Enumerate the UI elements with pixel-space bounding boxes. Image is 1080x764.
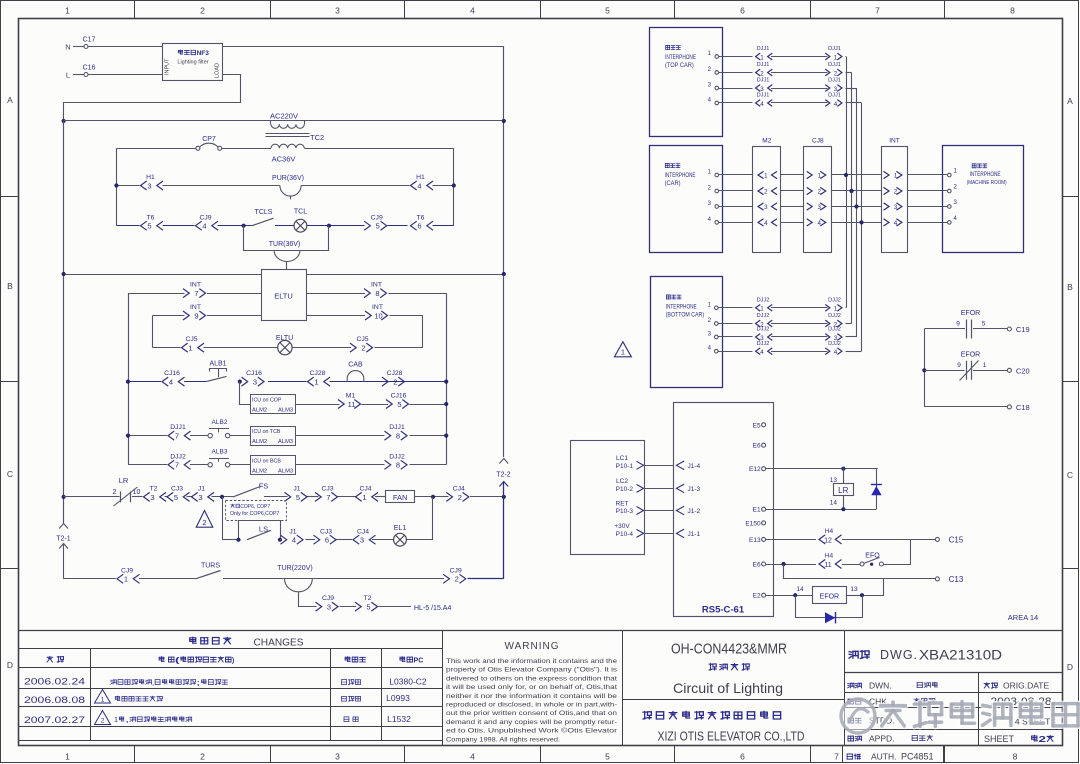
svg-text:2006.02.24: 2006.02.24 — [24, 677, 85, 687]
junction DJJ1 row right — [444, 434, 448, 438]
wire DJJ2-4 middle — [771, 351, 828, 353]
svg-text:APPD.: APPD. — [869, 734, 895, 744]
svg-text:LOAD: LOAD — [215, 63, 221, 78]
pin 2 top car — [708, 67, 719, 74]
pin 3 machine room — [948, 200, 958, 208]
svg-text:(CAR): (CAR) — [665, 181, 681, 187]
svg-text:J1: J1 — [293, 486, 300, 493]
svg-text:A: A — [1067, 96, 1073, 106]
svg-text:L1532: L1532 — [387, 714, 411, 724]
junction left bus top — [62, 119, 66, 123]
svg-text:2: 2 — [393, 378, 397, 387]
svg-text:DJJ1: DJJ1 — [170, 424, 186, 431]
connector M1-11 — [338, 393, 361, 409]
svg-text:6: 6 — [325, 536, 329, 545]
wire INT to machine room pin 4 — [907, 222, 947, 224]
contact H4-11 — [819, 553, 842, 569]
svg-text:4: 4 — [834, 349, 838, 356]
connector CJ9-2 — [443, 567, 466, 583]
svg-text:5: 5 — [605, 752, 610, 762]
junction TUR left — [242, 224, 246, 228]
svg-text:3: 3 — [150, 493, 154, 502]
wire ALB1 to ICU COP box — [240, 382, 251, 405]
unit ICU on TCB — [251, 427, 296, 446]
warning notice box — [446, 641, 618, 743]
svg-text:CJ9: CJ9 — [121, 567, 133, 574]
svg-text:1: 1 — [362, 493, 366, 502]
unit ELTU box — [262, 270, 307, 321]
svg-text:7: 7 — [175, 461, 179, 470]
svg-text:E12: E12 — [749, 466, 761, 473]
svg-text:CAB: CAB — [348, 361, 363, 368]
svg-text:4: 4 — [894, 220, 898, 227]
svg-text:2: 2 — [458, 493, 462, 502]
revision row 2007.02.27 — [24, 711, 411, 726]
diode D2 — [825, 612, 836, 623]
connector DJJ1-4 left — [756, 93, 773, 108]
svg-text:1: 1 — [834, 54, 838, 61]
svg-text:1: 1 — [894, 173, 898, 180]
wire DJJ1-4 middle — [771, 102, 828, 104]
svg-text:TUR(36V): TUR(36V) — [269, 241, 301, 248]
svg-text:C20: C20 — [1016, 366, 1030, 375]
svg-text:1: 1 — [764, 173, 768, 180]
svg-text:out the prior written consent: out the prior written consent of Otis,an… — [446, 710, 617, 717]
svg-text:DJJ1: DJJ1 — [828, 78, 841, 84]
pin 2 machine room — [948, 185, 958, 193]
wire TURS row — [64, 578, 504, 580]
junction CJ16 row left — [126, 380, 130, 384]
junction E12 LR branch — [841, 467, 845, 471]
svg-text:1: 1 — [314, 378, 318, 387]
relay EFOR coil — [813, 587, 847, 604]
svg-text:DJJ1: DJJ1 — [757, 62, 770, 68]
connector CJ5-2 — [350, 336, 373, 352]
net HL-5 /15.A4 — [414, 605, 451, 612]
junction LR row left — [62, 495, 66, 499]
svg-text:CJ9: CJ9 — [450, 567, 462, 574]
svg-text:4: 4 — [470, 6, 475, 16]
svg-text:3: 3 — [335, 6, 340, 16]
svg-text:CHANGES: CHANGES — [254, 637, 304, 649]
wire top car pin 1 — [719, 56, 753, 58]
svg-text:FAN: FAN — [393, 493, 408, 502]
svg-text:1: 1 — [124, 575, 128, 584]
svg-text:5: 5 — [376, 222, 380, 231]
pin E6 — [753, 443, 766, 450]
svg-text:ELTU: ELTU — [274, 291, 293, 300]
svg-text:2007.02.27: 2007.02.27 — [24, 715, 85, 725]
pin E2 — [753, 593, 766, 600]
svg-text:B: B — [1067, 282, 1073, 292]
pin E6 — [753, 562, 766, 569]
wire DJJ1 row — [128, 435, 446, 437]
svg-text:4: 4 — [760, 101, 764, 108]
drawing number DWG XBA21310D — [849, 648, 1002, 663]
connector CJ28-2 — [382, 370, 405, 386]
wire E1 row — [766, 509, 877, 511]
breaker CP7 — [196, 136, 222, 150]
titleblock row APPD — [848, 734, 933, 744]
svg-text:E6: E6 — [753, 562, 761, 569]
connector CJ9-1 — [117, 567, 140, 583]
wire DJJ2-3 to vertical — [846, 336, 857, 338]
revision triangle 2 — [196, 511, 213, 528]
connector DJJ2-8 — [385, 453, 408, 469]
connector DJJ1-4 right — [825, 93, 842, 108]
svg-text:DJJ2: DJJ2 — [757, 341, 770, 347]
wire car pin 3 to M2 — [719, 206, 753, 208]
terminal C19 — [1007, 325, 1029, 334]
svg-text:CJ3: CJ3 — [320, 528, 332, 535]
connector block M2 — [753, 137, 781, 252]
wire bottom car pin 3 — [718, 336, 752, 338]
svg-text:DWG.: DWG. — [880, 648, 918, 662]
svg-text:delivered to others on the exp: delivered to others on the express condi… — [446, 675, 617, 682]
svg-text:NF3: NF3 — [197, 50, 210, 57]
junction row 3 vertical — [854, 204, 858, 208]
connector DJJ2-1 left — [756, 297, 773, 312]
pin 3 bottom car — [708, 332, 718, 339]
connector DJJ1-2 right — [825, 62, 842, 77]
node L — [66, 71, 84, 80]
connector CJ9-4 — [196, 214, 219, 230]
svg-text:1: 1 — [760, 306, 764, 313]
wire P10-2 to J1-3 — [644, 488, 674, 490]
wire INT to machine room pin 1 — [907, 174, 947, 176]
wire filter LOAD return — [64, 75, 241, 121]
wire bottom car pin 1 — [718, 307, 752, 309]
svg-text:4: 4 — [764, 220, 768, 227]
svg-text:DJJ1: DJJ1 — [828, 62, 841, 68]
junction E2 13 — [850, 586, 864, 597]
pin 1 machine room — [948, 169, 958, 177]
connector block INT — [882, 137, 908, 252]
drawing number block — [844, 673, 1062, 746]
wire E12 row — [766, 468, 878, 470]
wire P10-1 to J1-4 — [644, 465, 674, 467]
pin E5 — [753, 422, 766, 429]
svg-text:This work and the information: This work and the information it contain… — [446, 658, 617, 665]
wire C15 to EFO — [910, 539, 912, 564]
wire CJ8 to INT row 2 — [832, 190, 882, 192]
connector DJJ2-4 right — [825, 341, 842, 356]
pin E150 — [745, 520, 765, 527]
wire DJJ2-2 to vertical — [846, 323, 852, 325]
wire top car pin 3 — [719, 88, 753, 90]
wire DJJ2-1 middle — [771, 307, 828, 309]
titleblock row CHK — [848, 697, 935, 707]
svg-text:9: 9 — [194, 311, 198, 320]
svg-text:ICU on TCB: ICU on TCB — [252, 429, 281, 435]
svg-text:9: 9 — [957, 362, 961, 369]
contact EFOR 9-5 — [956, 310, 1007, 339]
wire AC36V right to right sub bus — [304, 148, 454, 225]
switch TCLS — [252, 209, 274, 226]
svg-text:EL1: EL1 — [394, 525, 407, 532]
connector CJ16-3 — [242, 370, 265, 386]
svg-text:H4: H4 — [825, 553, 834, 560]
junction LS left — [236, 538, 240, 542]
svg-text:ed to Otis. Unpublished W: ed to Otis. Unpublished Work ©Otis Eleva… — [446, 727, 618, 735]
wire INT8 row — [306, 293, 447, 465]
connector T6-5 — [141, 214, 164, 230]
wire INT7 row — [128, 293, 262, 465]
svg-text:ALM3: ALM3 — [278, 407, 293, 413]
terminal C17 — [83, 37, 96, 49]
junction CJ16 row right — [444, 380, 448, 384]
svg-text:,: , — [152, 680, 154, 687]
connector T6-6 — [411, 214, 434, 230]
titleblock row STDD — [848, 716, 895, 726]
connector DJJ1-1 left — [756, 46, 773, 61]
svg-text:C16: C16 — [83, 65, 96, 72]
connector CJ16-4 — [162, 370, 185, 386]
svg-text:OH-CON4423&MMR: OH-CON4423&MMR — [671, 642, 787, 658]
svg-text:ALM2: ALM2 — [252, 439, 267, 445]
svg-text:3: 3 — [335, 752, 340, 762]
svg-text:;: ; — [196, 680, 200, 687]
left ruler strip — [1, 95, 18, 670]
connector DJJ1-7 — [168, 424, 191, 440]
svg-text:8: 8 — [1010, 6, 1015, 16]
svg-text:2: 2 — [760, 70, 764, 77]
pin 1 car — [708, 170, 719, 177]
junction AC220V bus right — [502, 119, 506, 123]
junction E6 — [782, 562, 786, 566]
svg-text:7: 7 — [875, 6, 880, 16]
unit RS5-C-61 — [674, 403, 774, 617]
svg-text:2: 2 — [113, 489, 117, 496]
revision triangle 1 — [614, 342, 631, 357]
svg-text:CJ16: CJ16 — [391, 393, 407, 400]
svg-text:AREA 14: AREA 14 — [1008, 613, 1038, 622]
svg-text:E150: E150 — [745, 520, 761, 527]
svg-text:2: 2 — [361, 344, 365, 353]
svg-text:CJ9: CJ9 — [322, 595, 334, 602]
svg-text:2: 2 — [101, 718, 105, 725]
svg-text:5: 5 — [982, 321, 986, 328]
junction H1 row right — [452, 183, 456, 187]
svg-text:2: 2 — [200, 752, 205, 762]
wire INT to machine room pin 3 — [907, 206, 947, 208]
connector J1-4 — [281, 528, 304, 544]
connector block CJ8 — [804, 137, 832, 252]
svg-text:Company 1998. All rights rese: Company 1998. All rights reserved. — [446, 736, 560, 743]
connector CJ4-2 — [446, 486, 469, 502]
wire diode loop — [796, 596, 863, 618]
svg-text:12: 12 — [824, 537, 832, 544]
svg-text:J1-2: J1-2 — [688, 508, 701, 515]
svg-text:AC36V: AC36V — [272, 155, 296, 164]
wire LR row — [64, 496, 504, 498]
svg-text:CJ3: CJ3 — [321, 486, 333, 493]
wire DJJ2-4 to vertical — [846, 351, 862, 353]
lamp TCL — [294, 209, 307, 233]
svg-text:J1: J1 — [289, 528, 296, 535]
svg-text:J1-3: J1-3 — [688, 486, 701, 493]
terminal C13 — [935, 575, 963, 584]
svg-text:EFOR: EFOR — [961, 310, 980, 317]
lamp EL1 — [394, 525, 407, 546]
changes table header — [47, 637, 424, 665]
svg-text:4: 4 — [292, 536, 296, 545]
svg-text:DJJ2: DJJ2 — [389, 453, 405, 460]
connector H1-4 — [411, 174, 434, 190]
diode D1 — [871, 469, 882, 510]
pin 3 top car — [708, 83, 719, 90]
svg-text:(MACHINE ROOM): (MACHINE ROOM) — [967, 180, 1007, 186]
wire DJJ1-1 to vertical — [846, 57, 847, 308]
svg-text:2: 2 — [200, 6, 205, 16]
wire DJJ1-3 to vertical — [846, 88, 857, 337]
svg-text:3: 3 — [327, 603, 331, 612]
pin 1 bottom car — [708, 302, 718, 309]
svg-text:TC2: TC2 — [310, 133, 324, 142]
connector INT-9 — [183, 304, 206, 320]
svg-text:D: D — [7, 660, 13, 670]
connector DJJ2-3 right — [825, 327, 842, 342]
svg-text:6: 6 — [417, 222, 421, 231]
svg-text:T2-2: T2-2 — [496, 472, 511, 479]
svg-text:6: 6 — [740, 6, 745, 16]
switch LS — [247, 525, 271, 540]
svg-text:P10-2: P10-2 — [616, 486, 634, 493]
svg-text:1: 1 — [983, 362, 987, 369]
pin 2 bottom car — [708, 318, 718, 325]
svg-text:4: 4 — [760, 349, 764, 356]
pin E12 — [749, 466, 766, 473]
svg-text:3: 3 — [360, 536, 364, 545]
svg-text:INT: INT — [889, 137, 900, 144]
connector CJ28-1 — [308, 370, 331, 386]
svg-text:ALM2: ALM2 — [252, 468, 267, 474]
svg-text:3: 3 — [894, 204, 898, 211]
wire EFOR common vertical — [924, 329, 965, 407]
svg-text:INTERPHONE: INTERPHONE — [665, 173, 696, 179]
junction EFOR common — [922, 368, 926, 372]
auth box AUTH PC4851 — [843, 746, 944, 764]
wire P10-4 to J1-1 — [644, 533, 674, 535]
pin J1-2 — [676, 506, 700, 515]
svg-text:CJ4: CJ4 — [453, 486, 465, 493]
switch EFO — [860, 553, 883, 567]
wire L to filter — [88, 74, 162, 76]
svg-text:DJJ1: DJJ1 — [757, 46, 770, 52]
svg-text:C18: C18 — [1016, 403, 1030, 412]
junction FAN row right — [502, 495, 506, 499]
wire filter N output to right bus — [223, 46, 504, 48]
svg-text:1: 1 — [65, 6, 70, 16]
svg-text:4: 4 — [417, 181, 421, 190]
svg-text:5: 5 — [174, 493, 178, 502]
svg-text:XBA21310D: XBA21310D — [919, 648, 1002, 663]
svg-text:ORIG.DATE: ORIG.DATE — [1003, 681, 1049, 691]
junction row 4 vertical — [859, 220, 863, 224]
wire M1 row — [296, 404, 447, 406]
svg-text:demand it and any copies will: demand it and any copies will be promptl… — [446, 719, 617, 726]
svg-text:LR: LR — [119, 476, 129, 485]
svg-text:AUTH.: AUTH. — [871, 752, 897, 762]
svg-text:+30V: +30V — [614, 523, 630, 530]
pin 4 car — [708, 217, 719, 224]
svg-text:L0993: L0993 — [386, 693, 410, 703]
wire M2 to CJ8 row 3 — [781, 206, 804, 208]
wire AC220V bus — [64, 120, 504, 122]
svg-text:PC4851: PC4851 — [901, 752, 934, 762]
wire DJJ2-1 to vertical — [845, 307, 848, 309]
svg-text:2006.08.08: 2006.08.08 — [24, 695, 85, 705]
junction FAN right — [431, 495, 435, 499]
svg-text:TCLS: TCLS — [255, 209, 273, 216]
svg-text:DJJ1: DJJ1 — [828, 46, 841, 52]
off-page arrow T2-1 — [56, 524, 71, 579]
svg-text:CJ9: CJ9 — [199, 214, 211, 221]
svg-text:it will be used only for, or o: it will be used only for, or on behalf o… — [446, 684, 617, 691]
title XIZI OTIS ELEVATOR CO LTD — [658, 730, 805, 744]
junction row 2 vertical — [849, 189, 853, 193]
transformer TUR(36V) — [244, 226, 329, 270]
svg-text:TUR(220V): TUR(220V) — [277, 565, 312, 572]
svg-text:ALB1: ALB1 — [209, 361, 226, 368]
top ruler strip — [65, 1, 1015, 18]
pin P10-2 LC2 — [616, 478, 644, 493]
connector DJJ1-1 right — [825, 46, 842, 61]
svg-text:CJ4: CJ4 — [359, 486, 371, 493]
svg-text:2: 2 — [894, 189, 898, 196]
svg-text:2: 2 — [202, 518, 206, 527]
titleblock row DWN — [848, 681, 938, 691]
wire bottom car pin 2 — [718, 323, 752, 325]
svg-text:PUR(36V): PUR(36V) — [272, 175, 304, 182]
svg-text:H4: H4 — [825, 528, 834, 535]
connector CJ3-5 — [167, 486, 190, 502]
svg-text:E5: E5 — [753, 422, 761, 429]
svg-text:ICU on COP: ICU on COP — [252, 397, 282, 403]
svg-text:XIZI OTIS ELEVATOR CO.,LTD: XIZI OTIS ELEVATOR CO.,LTD — [658, 730, 805, 744]
wire right vertical bus upper — [503, 47, 505, 458]
wire INT to machine room pin 2 — [907, 190, 947, 192]
wire E13 row — [766, 539, 936, 541]
revision row 2006.08.08 — [24, 690, 410, 706]
svg-text:CJ28: CJ28 — [387, 370, 403, 377]
titleblock date ORIG.DATE — [984, 681, 1049, 691]
wire M2 to CJ8 row 2 — [781, 190, 804, 192]
wire DJJ1-1 middle — [771, 56, 828, 58]
pushbutton ALB1 — [206, 361, 227, 382]
junction TUR right — [327, 224, 331, 228]
svg-text:DWN.: DWN. — [869, 681, 892, 691]
svg-text:INTERPHONE: INTERPHONE — [970, 172, 1001, 178]
lamp ELTU — [276, 335, 293, 355]
wire second bus — [64, 274, 504, 276]
title Circuit of Lighting — [673, 680, 783, 696]
svg-text:CJ16: CJ16 — [246, 370, 262, 377]
note only for COP6 COP7 — [226, 501, 287, 521]
svg-text:7: 7 — [326, 493, 330, 502]
connector DJJ1-8 — [385, 424, 408, 440]
svg-text:2: 2 — [817, 189, 821, 196]
junction E2 14 — [793, 586, 804, 597]
svg-text:1: 1 — [817, 173, 821, 180]
wire DJJ2-3 middle — [771, 336, 828, 338]
connector CJ5-1 — [182, 336, 205, 352]
svg-text:CJ9: CJ9 — [371, 214, 383, 221]
contact H4-12 — [819, 528, 842, 544]
svg-text:ALB2: ALB2 — [212, 419, 228, 426]
svg-text:DJJ1: DJJ1 — [757, 93, 770, 99]
right ruler strip — [1062, 96, 1079, 672]
